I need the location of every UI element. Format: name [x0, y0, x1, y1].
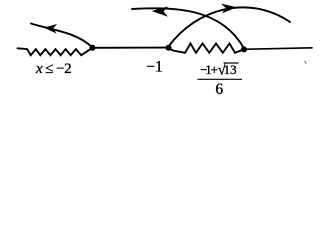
svg-text:−1: −1 [146, 58, 163, 75]
svg-text:6: 6 [215, 81, 223, 98]
speck artifact [305, 61, 307, 64]
node: filled point at x = (-1+sqrt(13))/6 [241, 46, 247, 52]
svg-text:x ≤ −2: x ≤ −2 [35, 61, 71, 77]
svg-text:13: 13 [224, 62, 237, 77]
wire: curved arrow from -1 sweeping to upper right [169, 7, 291, 46]
wire: straight number line between -2 and -1 [95, 47, 166, 49]
wire: curved test arrow over left interval [31, 24, 93, 48]
arrowhead on upper-right curve pointing right [221, 4, 237, 14]
wire: straight number line right of (-1+sqrt(13))/6 [247, 48, 313, 49]
wire: middle zigzag segment (-1 to (-1+sqrt(13))/6 interval) [169, 44, 245, 53]
label: radical overline on 13 [224, 62, 239, 64]
arrowhead on upper-left curve pointing left [152, 6, 169, 16]
wire: left zigzag segment (x <= -2 interval) [18, 48, 93, 56]
node: filled point at x = -1 [166, 45, 172, 51]
wire: curved arrow from right point sweeping to upper left [132, 8, 245, 49]
node: filled point at x = -2 [90, 45, 96, 51]
arrowhead on left curve pointing left [44, 24, 57, 34]
label: fraction bar [198, 78, 243, 80]
